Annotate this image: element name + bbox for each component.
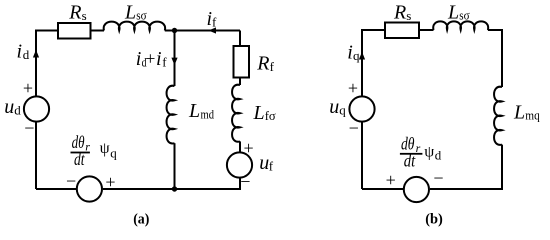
svg-text:L: L	[447, 1, 459, 23]
svg-text:f: f	[269, 159, 274, 174]
wire: Rf to Lfo	[239, 78, 241, 86]
fraction bar (a)	[71, 152, 90, 154]
inductor Lfo	[232, 85, 240, 142]
inductor Lso (a)	[104, 22, 165, 31]
svg-text:d: d	[23, 47, 30, 62]
arrow id+if down (a)	[171, 58, 177, 66]
svg-text:L: L	[253, 102, 265, 124]
svg-text:i: i	[156, 48, 162, 70]
node dot: top junction (a)	[172, 28, 177, 33]
svg-text:−: −	[24, 118, 34, 138]
inductor Lmd	[167, 86, 175, 144]
svg-text:ψ: ψ	[424, 144, 434, 161]
svg-text:(a): (a)	[133, 211, 149, 227]
svg-text:f: f	[212, 15, 217, 30]
svg-text:−: −	[433, 168, 443, 188]
svg-text:u: u	[259, 152, 269, 174]
svg-text:+: +	[23, 78, 33, 98]
source uf circle	[227, 152, 252, 177]
svg-text:s: s	[406, 8, 411, 23]
svg-text:fσ: fσ	[265, 108, 276, 123]
wire: Rs to Lso (b)	[419, 29, 434, 31]
svg-text:ψ: ψ	[100, 140, 110, 157]
wire: bottom left (a)	[36, 188, 76, 190]
wire: circuit (a) left vertical top segment	[36, 31, 58, 97]
source uq circle	[349, 96, 374, 121]
svg-text:u: u	[329, 96, 339, 118]
wire: right vertical bottom (b)	[430, 145, 502, 189]
svg-text:q: q	[353, 48, 360, 63]
svg-text:−: −	[349, 118, 359, 138]
svg-text:−: −	[240, 172, 250, 192]
svg-text:L: L	[124, 1, 136, 23]
node dot: bottom junction (a)	[172, 186, 177, 191]
resistor Rf	[234, 46, 250, 78]
svg-text:dt: dt	[404, 151, 416, 171]
wire: circuit (b) left vertical top	[362, 30, 385, 96]
svg-text:sσ: sσ	[136, 8, 146, 23]
svg-text:+: +	[105, 172, 115, 192]
source bottom (a) circle	[77, 176, 102, 201]
svg-text:mq: mq	[525, 108, 540, 123]
svg-text:q: q	[110, 146, 117, 161]
svg-text:−: −	[66, 171, 76, 191]
svg-text:R: R	[68, 2, 81, 24]
wire: circuit (a) left vertical bottom segment	[35, 122, 37, 189]
resistor Rs (a)	[58, 23, 91, 39]
wire: Rs to Lso (a)	[91, 30, 105, 32]
svg-text:L: L	[513, 101, 525, 123]
svg-text:u: u	[4, 96, 14, 118]
arrow if left (a)	[209, 27, 217, 33]
svg-text:i: i	[136, 48, 142, 70]
wire: bottom left (b)	[362, 188, 403, 190]
svg-text:r: r	[85, 140, 90, 154]
svg-text:f: f	[162, 55, 167, 70]
resistor Rs (b)	[385, 23, 419, 39]
wire: top right (a) with node to Rf branch	[165, 30, 240, 32]
svg-text:(b): (b)	[425, 212, 443, 228]
svg-text:+: +	[145, 49, 155, 69]
arrow id up (a)	[33, 50, 39, 58]
svg-text:R: R	[393, 2, 406, 24]
wire: Lfo to uf source	[239, 141, 241, 151]
wire: (b) left vertical bottom	[361, 122, 363, 189]
svg-text:+: +	[386, 170, 396, 190]
svg-text:sσ: sσ	[459, 8, 469, 23]
inductor Lso (b)	[433, 21, 488, 30]
fraction bar (b)	[400, 153, 423, 155]
source ud circle	[24, 96, 49, 121]
svg-text:d: d	[435, 148, 442, 163]
svg-text:L: L	[188, 100, 200, 122]
svg-text:md: md	[201, 107, 215, 122]
svg-text:f: f	[270, 59, 275, 74]
svg-text:d: d	[14, 103, 21, 118]
svg-text:+: +	[244, 138, 254, 158]
svg-text:q: q	[339, 103, 346, 118]
wire: middle branch vertical (a)	[174, 31, 176, 87]
wire: top right corner (b)	[488, 30, 502, 87]
wire: uf to bottom	[103, 178, 240, 189]
svg-text:i: i	[17, 40, 23, 62]
wire: Rf branch vertical top	[239, 31, 241, 47]
wire: Lmd to bottom	[174, 143, 176, 189]
source bottom (b) circle	[404, 177, 429, 202]
svg-text:R: R	[256, 52, 269, 74]
inductor Lmq	[494, 87, 502, 145]
arrow iq up (b)	[359, 52, 365, 60]
svg-text:dt: dt	[74, 149, 85, 169]
svg-text:+: +	[348, 78, 358, 98]
svg-text:s: s	[82, 8, 87, 23]
